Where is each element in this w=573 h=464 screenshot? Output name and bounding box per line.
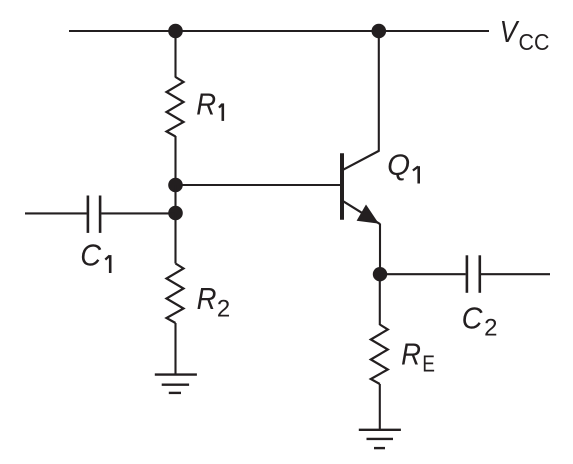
label RE bbox=[401, 337, 435, 377]
wire emitter node to C2 bbox=[380, 273, 466, 275]
label Q1 bbox=[387, 149, 419, 184]
svg-text:R: R bbox=[401, 337, 421, 372]
wire VCC rail to R1 bbox=[174, 31, 176, 78]
node junction: VCC rail / R1 top bbox=[168, 24, 183, 39]
wire C1 node to R2 bbox=[174, 213, 176, 264]
wire input to C1 bbox=[25, 212, 87, 214]
label VCC bbox=[500, 14, 550, 55]
wire VCC rail bbox=[69, 30, 489, 32]
transistor Q1 bbox=[342, 151, 380, 224]
resistor RE bbox=[371, 325, 388, 385]
wire C1 to node bbox=[101, 212, 175, 214]
ground symbol (R2) bbox=[155, 375, 197, 393]
wire R2 to ground bbox=[174, 323, 176, 375]
svg-text:C: C bbox=[80, 237, 101, 272]
svg-text:E: E bbox=[422, 351, 435, 377]
resistor R2 bbox=[167, 264, 184, 324]
svg-text:R: R bbox=[196, 87, 216, 122]
label C1 bbox=[80, 237, 110, 273]
svg-text:2: 2 bbox=[217, 295, 230, 322]
node junction: emitter bbox=[373, 267, 387, 281]
label C2 bbox=[462, 300, 498, 341]
wire Q1 collector to VCC rail bbox=[378, 31, 380, 151]
wire C2 to output bbox=[481, 273, 550, 275]
svg-text:V: V bbox=[500, 14, 521, 49]
capacitor C2 bbox=[467, 255, 480, 292]
wire emitter node to RE bbox=[379, 274, 381, 325]
capacitor C1 bbox=[88, 196, 100, 233]
wire base node to Q1 base bbox=[176, 184, 341, 186]
wire R1 to base node bbox=[174, 136, 176, 185]
node junction: base node bbox=[168, 178, 183, 193]
node junction: VCC rail / Q1 collector bbox=[372, 24, 387, 39]
resistor R1 bbox=[167, 77, 184, 137]
label R2 bbox=[197, 281, 231, 323]
svg-text:Q: Q bbox=[387, 149, 410, 182]
wire Q1 emitter to emitter node bbox=[379, 224, 381, 275]
node junction: C1 / R2 bbox=[168, 206, 183, 221]
svg-text:2: 2 bbox=[484, 315, 497, 342]
svg-text:CC: CC bbox=[519, 29, 550, 55]
svg-text:C: C bbox=[462, 300, 483, 335]
wire base node to C1 node bbox=[174, 185, 176, 213]
ground symbol (RE) bbox=[359, 430, 401, 448]
wire RE to ground bbox=[379, 384, 381, 430]
label R1 bbox=[196, 87, 223, 122]
svg-text:R: R bbox=[197, 281, 217, 316]
